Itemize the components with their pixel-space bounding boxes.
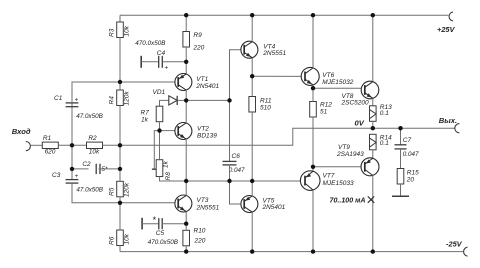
svg-text:VT3: VT3 bbox=[197, 197, 209, 204]
wire input lead bbox=[30, 144, 42, 146]
svg-text:MJE15033: MJE15033 bbox=[323, 180, 354, 187]
wire VT6 collector bbox=[312, 15, 314, 68]
junction R2/R4 node bbox=[118, 143, 122, 147]
wire bias-VT1base bbox=[120, 81, 175, 83]
transistor VT4 bbox=[241, 41, 258, 58]
wire -25V rail bbox=[120, 251, 463, 253]
common bar C5 bbox=[141, 218, 143, 230]
svg-text:2SA1943: 2SA1943 bbox=[336, 151, 364, 158]
svg-text:0.047: 0.047 bbox=[229, 167, 245, 174]
svg-text:-25V: -25V bbox=[446, 239, 463, 248]
wire rail-R3 bbox=[119, 15, 121, 22]
junction C4/VT1 emitter bbox=[184, 60, 188, 64]
ground bbox=[392, 195, 409, 197]
wire VT6 emitter bbox=[312, 85, 314, 88]
transistor VT5 bbox=[241, 196, 258, 213]
capacitor C6 bbox=[223, 160, 237, 162]
resistor R4 bbox=[117, 90, 124, 106]
wire C4 left lead bbox=[141, 61, 159, 63]
svg-text:R2: R2 bbox=[88, 135, 97, 142]
wire R7top-VD1 bbox=[160, 100, 169, 106]
svg-text:0V: 0V bbox=[355, 119, 365, 128]
wire colD up to VT4 base bbox=[230, 50, 241, 101]
transistor VT8 bbox=[361, 81, 379, 99]
junction VD1/VT4 base column bbox=[227, 98, 231, 102]
junction VT6e/R12/VT8 base bbox=[311, 86, 315, 90]
resistor R5 bbox=[117, 181, 124, 197]
junction C5/VT3 emitter bbox=[184, 222, 188, 226]
wire R9-VT1e bbox=[185, 47, 187, 74]
junction R7/VT2 base bbox=[157, 128, 161, 132]
wire VT8 collector bbox=[372, 15, 374, 81]
svg-text:VT7: VT7 bbox=[323, 172, 335, 179]
svg-text:2N5551: 2N5551 bbox=[262, 50, 286, 57]
wire VT3 emitter bbox=[185, 212, 187, 224]
wire VT3 collector bbox=[185, 181, 187, 195]
svg-text:C1: C1 bbox=[54, 95, 63, 102]
svg-text:C7: C7 bbox=[403, 137, 412, 144]
svg-text:70..100 мА: 70..100 мА bbox=[330, 196, 366, 204]
wire VT7 emitter-down bbox=[312, 190, 314, 252]
wire C5 left lead bbox=[142, 223, 159, 225]
transistor VT7 bbox=[300, 171, 320, 191]
resistor R3 bbox=[117, 22, 124, 38]
svg-text:2SC5200: 2SC5200 bbox=[341, 99, 369, 106]
wire C2 left lead bbox=[72, 168, 89, 170]
junction bias node R3/R4 bbox=[118, 80, 122, 84]
wire VT4e-R11 bbox=[251, 76, 253, 96]
resistor R13 bbox=[370, 106, 377, 122]
junction +25V/VT8 bbox=[371, 13, 375, 17]
svg-text:1k: 1k bbox=[141, 116, 149, 123]
wire VT8 emitter bbox=[372, 98, 374, 105]
wire VT2 emitter bbox=[185, 139, 187, 181]
wire C5 right lead bbox=[162, 223, 186, 225]
wire R1-node bbox=[58, 144, 86, 146]
svg-text:C6: C6 bbox=[232, 153, 241, 160]
wire R6 leads bbox=[119, 203, 121, 230]
capacitor C3 bbox=[66, 179, 79, 181]
wire VT9 collector bbox=[372, 175, 374, 251]
wire colD-VT5base bbox=[230, 181, 241, 204]
svg-text:C4: C4 bbox=[157, 50, 166, 57]
svg-text:Вход: Вход bbox=[12, 127, 31, 136]
svg-text:2N5401: 2N5401 bbox=[262, 204, 286, 211]
svg-text:1k: 1k bbox=[163, 160, 170, 168]
wire R8 leads bbox=[159, 131, 161, 160]
junction C2/R5 node bbox=[118, 167, 122, 171]
wire VT5 collector bbox=[251, 212, 253, 252]
svg-text:R8: R8 bbox=[165, 172, 172, 181]
svg-text:470.0x50В: 470.0x50В bbox=[148, 239, 178, 246]
wire R13-0V bbox=[372, 121, 374, 128]
junction R1/C1 node bbox=[70, 143, 74, 147]
junction R11/VT5e VAS line bbox=[250, 179, 254, 183]
junction VD1/VT1 collector bbox=[184, 98, 188, 102]
wire VD1node-colD bbox=[186, 99, 229, 101]
svg-text:+: + bbox=[165, 65, 169, 72]
svg-text:R3: R3 bbox=[109, 28, 116, 37]
capacitor C1 bbox=[66, 102, 79, 104]
svg-text:R6: R6 bbox=[109, 236, 116, 245]
svg-text:+25V: +25V bbox=[437, 25, 456, 34]
svg-text:R7: R7 bbox=[141, 109, 150, 116]
wire C7-R15 bbox=[400, 149, 402, 169]
svg-text:VD1: VD1 bbox=[153, 89, 166, 96]
wire wiper bbox=[154, 131, 159, 170]
wire VT4 emitter bbox=[251, 58, 253, 76]
wire R5 leads bbox=[119, 169, 121, 181]
transistor VT2 bbox=[175, 123, 192, 140]
wire X down bbox=[71, 145, 73, 179]
svg-text:47.0x50В: 47.0x50В bbox=[76, 187, 103, 194]
terminal -25V bbox=[464, 247, 468, 256]
svg-text:10k: 10k bbox=[124, 233, 131, 244]
wire C1 up to bias bbox=[72, 82, 120, 103]
svg-text:20: 20 bbox=[406, 176, 415, 183]
junction VT4e/R11/VT6 base bbox=[250, 74, 254, 78]
resistor R9 bbox=[183, 32, 190, 48]
svg-text:10k: 10k bbox=[89, 149, 100, 156]
junction C6/VAS line bbox=[227, 179, 231, 183]
svg-text:+: + bbox=[75, 173, 79, 180]
svg-text:C5: C5 bbox=[156, 230, 165, 237]
svg-text:MJE15032: MJE15032 bbox=[322, 79, 353, 86]
wire R15-gnd bbox=[400, 184, 402, 196]
wire R11-VAS bbox=[251, 112, 253, 181]
junction VT7c/VT9 base bbox=[311, 165, 315, 169]
resistor R11 bbox=[249, 97, 256, 113]
svg-text:5*: 5* bbox=[102, 166, 109, 173]
wire R2-out bbox=[103, 144, 121, 146]
svg-text:VT2: VT2 bbox=[197, 126, 209, 133]
svg-text:C3: C3 bbox=[52, 172, 61, 179]
capacitor C2 bbox=[95, 164, 97, 174]
wire VT1c bbox=[185, 90, 187, 100]
wire VAS row bbox=[186, 180, 300, 182]
wire R3-bias bbox=[119, 38, 121, 83]
wire +25V rail bbox=[120, 14, 449, 16]
wire VT6e-VT8base bbox=[313, 87, 361, 89]
wire VD1-node bbox=[177, 99, 186, 101]
capacitor C4 bbox=[158, 56, 160, 68]
svg-text:47.0x50В: 47.0x50В bbox=[76, 113, 103, 120]
capacitor C5 bbox=[158, 218, 160, 229]
junction +25V/VT4 bbox=[250, 13, 254, 17]
svg-text:220: 220 bbox=[192, 45, 204, 52]
resistor R6 bbox=[117, 230, 124, 246]
svg-text:R12: R12 bbox=[320, 102, 332, 109]
wire FB-VT3base bbox=[120, 202, 175, 204]
wire VT5 emitter bbox=[251, 181, 253, 196]
junction 0V/C7 bbox=[398, 126, 402, 130]
wire node-VT6base bbox=[252, 75, 301, 77]
svg-text:R1: R1 bbox=[43, 135, 52, 142]
resistor R1 bbox=[42, 142, 58, 148]
wire VT2 collector bbox=[185, 100, 187, 123]
svg-text:R11: R11 bbox=[260, 98, 272, 105]
svg-text:2N5551: 2N5551 bbox=[196, 205, 220, 212]
svg-text:0.047: 0.047 bbox=[403, 151, 419, 158]
wire Y down bbox=[119, 145, 121, 169]
resistor R10 bbox=[183, 230, 190, 246]
wire VT4 collector bbox=[251, 15, 253, 41]
wire colD-C6 bbox=[229, 100, 231, 161]
svg-text:0.1: 0.1 bbox=[380, 140, 389, 147]
transistor VT6 bbox=[301, 67, 319, 85]
transistor VT9 bbox=[361, 158, 379, 176]
wire VT7col-VT9base bbox=[313, 166, 361, 168]
wire 0V rail bbox=[120, 128, 455, 145]
svg-text:120k: 120k bbox=[124, 91, 131, 106]
resistor R2 bbox=[87, 142, 103, 148]
junction C2/C3 node bbox=[70, 167, 74, 171]
svg-text:220: 220 bbox=[194, 238, 206, 245]
common bar C4 bbox=[140, 56, 142, 68]
wire rail-R9 bbox=[185, 15, 187, 31]
svg-text:VT9: VT9 bbox=[338, 144, 350, 151]
svg-text:R15: R15 bbox=[407, 169, 419, 176]
resistor R15 bbox=[397, 169, 404, 185]
resistor R14 bbox=[370, 134, 377, 150]
svg-text:R5: R5 bbox=[109, 187, 116, 196]
junction -25V/VT7 bbox=[311, 249, 315, 253]
transistor VT1 bbox=[175, 74, 192, 91]
svg-text:51: 51 bbox=[320, 109, 328, 116]
wire C4 right lead bbox=[162, 61, 186, 63]
diode VD1 bbox=[169, 96, 177, 105]
svg-text:120k: 120k bbox=[124, 182, 131, 197]
svg-text:C2: C2 bbox=[82, 161, 91, 168]
terminal +25V bbox=[449, 12, 453, 21]
svg-text:470.0x50В: 470.0x50В bbox=[135, 40, 165, 47]
svg-text:10k: 10k bbox=[124, 25, 131, 36]
capacitor C7 bbox=[395, 144, 407, 146]
trimmer R8 wiper bar bbox=[152, 168, 157, 170]
wire R4 leads bbox=[119, 82, 121, 90]
terminal input bbox=[26, 142, 31, 151]
svg-text:*: * bbox=[152, 215, 156, 225]
trimmer R8 bbox=[156, 160, 163, 177]
resistor R12 bbox=[310, 102, 317, 118]
svg-text:BD139: BD139 bbox=[197, 133, 217, 140]
wire C1 top bbox=[71, 103, 73, 145]
svg-text:R4: R4 bbox=[109, 96, 116, 105]
svg-text:620: 620 bbox=[45, 149, 56, 156]
resistor R7 bbox=[156, 106, 163, 122]
junction -25V/VT5 bbox=[250, 249, 254, 253]
wire R7-base node bbox=[159, 122, 161, 131]
wire VT2 base bbox=[160, 130, 175, 132]
svg-text:+: + bbox=[75, 97, 79, 104]
svg-text:R10: R10 bbox=[194, 227, 206, 234]
junction VT2e/VT3c VAS node bbox=[184, 179, 188, 183]
svg-text:0.1: 0.1 bbox=[380, 110, 389, 117]
junction R13/R14 output bbox=[371, 126, 375, 130]
svg-text:Вых.: Вых. bbox=[439, 116, 457, 125]
junction -25V/R10 bbox=[184, 249, 188, 253]
wire C6 bottom bbox=[229, 165, 231, 181]
wire C2 right lead bbox=[99, 168, 121, 170]
current break mark bbox=[368, 196, 374, 202]
transistor VT3 bbox=[175, 195, 192, 212]
svg-text:510: 510 bbox=[260, 105, 271, 112]
junction R5/R6 feedback node bbox=[118, 201, 122, 205]
junction +25V/R9 bbox=[184, 13, 188, 17]
junction +25V/VT6 bbox=[311, 13, 315, 17]
wire C3-FBrow bbox=[72, 183, 120, 203]
svg-text:VT6: VT6 bbox=[322, 72, 334, 79]
wire R14-VT9 bbox=[372, 150, 374, 158]
wire R10 leads bbox=[185, 224, 187, 231]
svg-text:R9: R9 bbox=[193, 32, 202, 39]
svg-text:2N5401: 2N5401 bbox=[195, 83, 219, 90]
wire 0V-C7 bbox=[400, 128, 402, 145]
wire R12 leads bbox=[312, 88, 314, 101]
terminal Вых bbox=[455, 124, 460, 133]
junction -25V/VT9 bbox=[371, 249, 375, 253]
